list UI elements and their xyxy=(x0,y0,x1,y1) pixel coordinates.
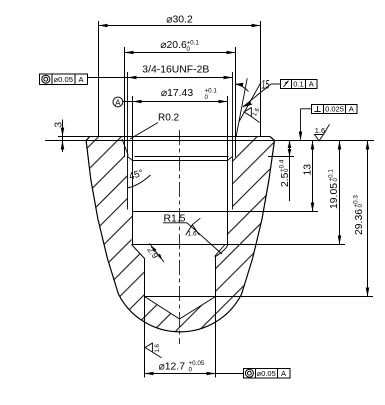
face / datum plane extension line xyxy=(45,140,374,142)
FCF circular runout 0.1 A xyxy=(281,79,318,88)
svg-text:19.05: 19.05 xyxy=(329,183,340,209)
surface finish 1.6 on top face xyxy=(315,124,330,141)
svg-text:⌀12.7: ⌀12.7 xyxy=(159,362,186,373)
svg-text:3/4-16UNF-2B: 3/4-16UNF-2B xyxy=(142,64,209,75)
svg-text:0: 0 xyxy=(187,46,191,53)
thread entry relief line xyxy=(133,160,228,162)
dimension 29.36 +0.3/0 xyxy=(353,141,370,297)
svg-text:⌀30.2: ⌀30.2 xyxy=(166,15,193,26)
outer profile outline xyxy=(86,137,274,332)
thread major dia line right xyxy=(232,72,234,210)
FCF concentricity dia0.05 A bottom xyxy=(244,369,291,379)
svg-text:15: 15 xyxy=(262,79,270,92)
dimension dia 30.2 xyxy=(99,15,261,137)
45 degree arc xyxy=(128,175,151,188)
svg-text:0: 0 xyxy=(205,94,209,101)
svg-text:R0.2: R0.2 xyxy=(158,113,180,124)
svg-text:A: A xyxy=(349,104,354,113)
dimension dia 20.6 +0.1/0 xyxy=(125,40,236,55)
45 degree chamfer leader xyxy=(122,139,128,156)
entry chamfer right xyxy=(228,157,233,161)
centerline xyxy=(179,130,181,344)
svg-text:13: 13 xyxy=(303,164,314,176)
drill cone right xyxy=(180,297,216,320)
thread minor dia line left xyxy=(132,96,134,245)
counterbore wall left / ext line xyxy=(124,47,126,157)
dimension 19.05 +0.1/0 xyxy=(328,141,342,245)
dimension 2.9 chamfer xyxy=(145,244,164,263)
svg-text:⌀17.43: ⌀17.43 xyxy=(161,88,193,99)
bottom corner R1.5 right xyxy=(216,245,229,257)
svg-text:2.5: 2.5 xyxy=(280,172,291,187)
15 degree angle arc xyxy=(235,84,248,92)
svg-text:0: 0 xyxy=(283,168,290,172)
runout FCF leader xyxy=(243,84,280,107)
entry chamfer left xyxy=(128,157,133,161)
svg-text:1.6: 1.6 xyxy=(155,343,161,352)
hatched section material xyxy=(86,137,274,332)
bottom chamfer left xyxy=(132,245,145,259)
dimension 3 left rim xyxy=(54,120,65,153)
surface finish 1.6 on cone xyxy=(244,107,261,123)
dimension 2.5 +0.4/0 xyxy=(279,141,292,202)
dimension 3/4-16UNF-2B thread xyxy=(87,64,233,79)
surface finish 1.6 at hole wall xyxy=(145,343,162,358)
svg-text:0.025: 0.025 xyxy=(325,104,344,113)
svg-text:0.1: 0.1 xyxy=(293,79,303,88)
svg-text:A: A xyxy=(309,79,314,88)
dimension dia 12.7 +0.05/0 xyxy=(145,360,244,375)
svg-text:0: 0 xyxy=(357,204,364,208)
svg-text:29.36: 29.36 xyxy=(354,209,365,235)
svg-text:0: 0 xyxy=(332,178,339,182)
R1.5 label leader xyxy=(163,213,225,256)
dimension 13 xyxy=(303,141,315,212)
svg-text:1.6: 1.6 xyxy=(188,230,197,237)
R0.2 label and leader xyxy=(130,113,180,140)
hole bottom line / 29.36 extension xyxy=(145,296,374,298)
drill cone left xyxy=(145,297,180,320)
svg-text:A: A xyxy=(281,369,286,378)
thread major dia line left xyxy=(127,72,129,210)
dimension dia 17.43 +0.1/0 xyxy=(123,88,228,104)
counterbore bottom line xyxy=(135,156,229,158)
thread minor dia line right xyxy=(227,96,229,245)
svg-text:⌀0.05: ⌀0.05 xyxy=(257,369,276,378)
svg-text:⌀0.05: ⌀0.05 xyxy=(54,75,73,84)
hole wall left / ext xyxy=(144,258,146,378)
bore bottom line / 19.05 extension xyxy=(133,244,346,246)
FCF perpendicularity 0.025 A xyxy=(299,104,357,140)
svg-text:⌀20.6: ⌀20.6 xyxy=(160,40,187,51)
hole wall right / ext xyxy=(215,256,217,378)
counterbore wall right / ext line xyxy=(235,47,237,157)
FCF concentricity dia0.05 A top left xyxy=(40,74,88,85)
datum A circle xyxy=(113,97,123,107)
svg-text:0: 0 xyxy=(189,367,193,374)
15 degree cone line xyxy=(236,78,247,136)
surface finish 1.6 at R1.5 xyxy=(186,218,201,237)
rim top face line xyxy=(58,136,270,138)
thread end line / 13 extension xyxy=(133,211,319,213)
svg-text:2.9: 2.9 xyxy=(145,245,160,261)
svg-text:45°: 45° xyxy=(128,168,145,183)
svg-text:A: A xyxy=(115,98,121,107)
